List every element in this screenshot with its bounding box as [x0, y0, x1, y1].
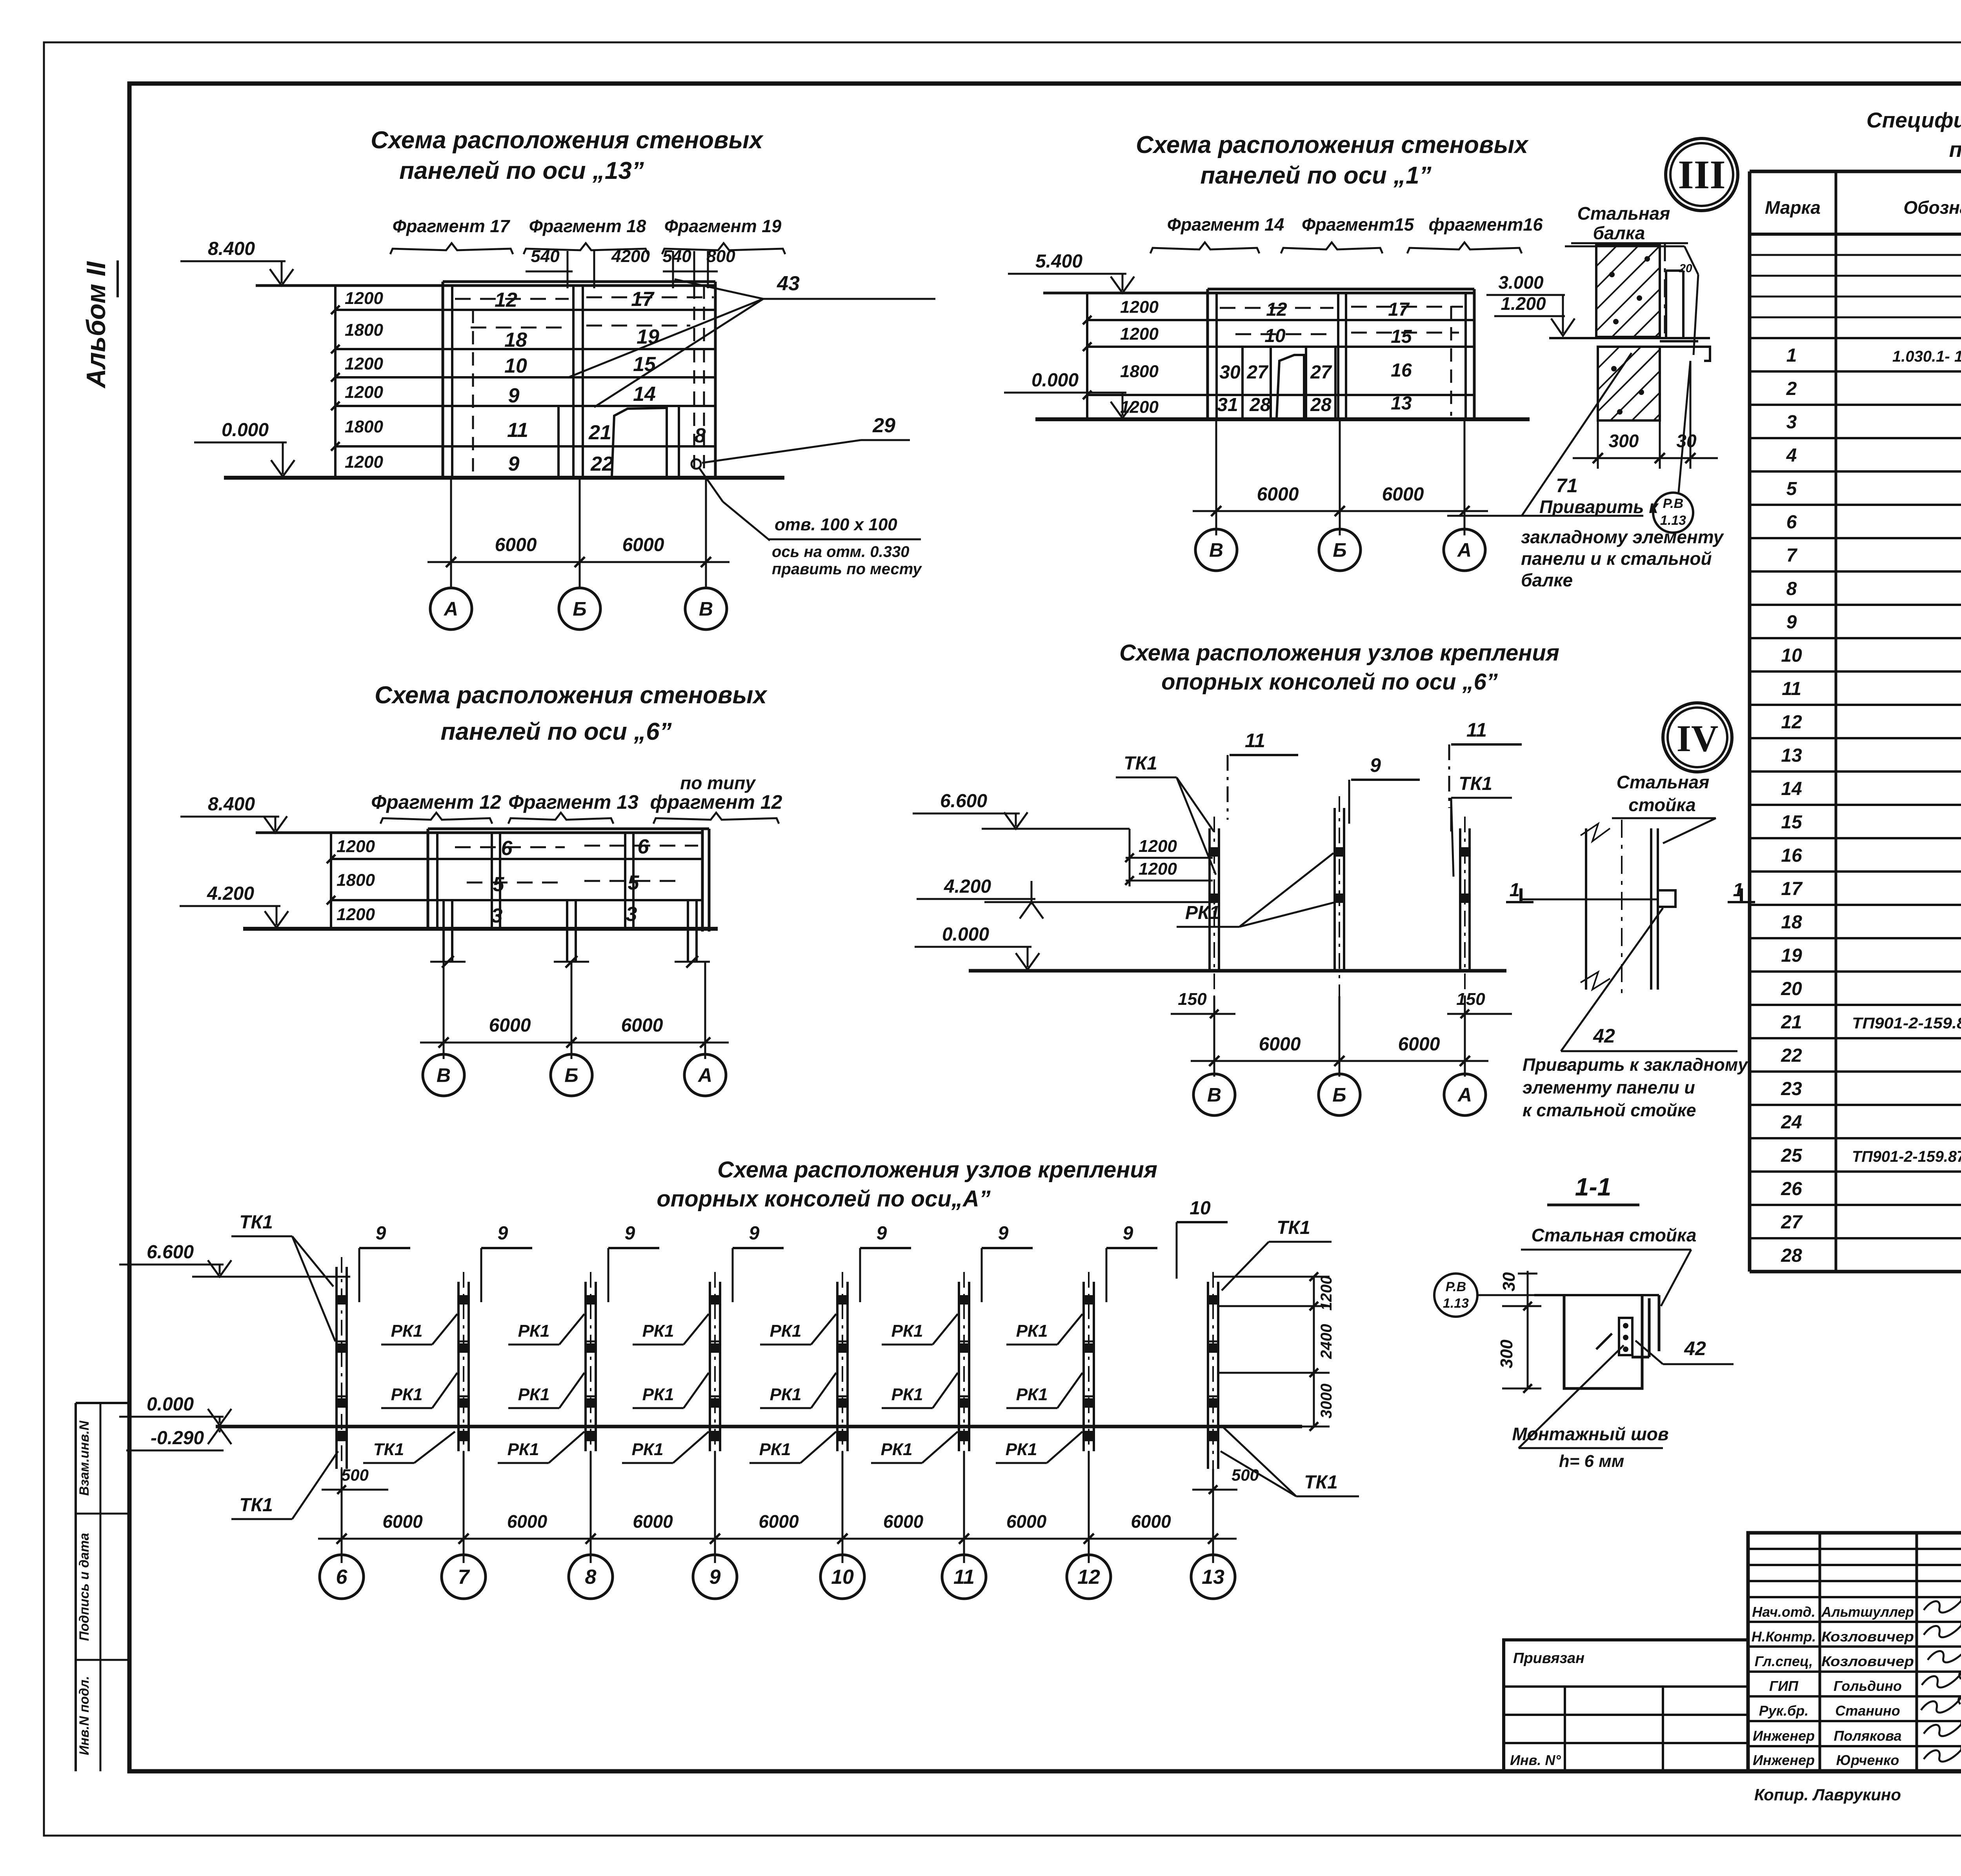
svg-text:6000: 6000 [759, 1511, 799, 1532]
svg-text:540: 540 [662, 247, 691, 266]
table row 13 ПС 63.5.12.3,0-3.Л-2,36 [1781, 745, 1961, 766]
bearing shelf lines [1549, 338, 1710, 361]
svg-text:42: 42 [1593, 1025, 1615, 1047]
svg-text:8: 8 [695, 424, 706, 447]
svg-text:20: 20 [1679, 262, 1692, 275]
svg-text:15: 15 [633, 353, 656, 376]
svg-text:10: 10 [1781, 645, 1802, 666]
svg-text:13: 13 [1202, 1566, 1224, 1589]
left margin attribute column [76, 1403, 129, 1771]
table row 9 ПС 63.5.12. 3,0-3.Л-2.43 [1786, 612, 1961, 633]
support posts under panel (axis 6) [430, 900, 710, 968]
svg-text:А: А [1457, 539, 1472, 561]
РК1 labels middle row (axis A) [381, 1373, 1082, 1408]
svg-text:1800: 1800 [345, 320, 383, 340]
svg-text:42: 42 [1684, 1337, 1706, 1359]
note приварить к закладному (IV) [1523, 1055, 1748, 1120]
svg-text:Инженер: Инженер [1753, 1752, 1815, 1768]
upper wall section (hatched) [1596, 245, 1660, 337]
label РК1 with leaders (IV) [1177, 853, 1335, 927]
svg-text:Фрагмент 19: Фрагмент 19 [664, 216, 782, 236]
label Стальная стойка (1-1) [1521, 1225, 1696, 1306]
svg-text:10: 10 [1190, 1198, 1211, 1219]
reference circle Р.В 1.13 (III) [1653, 361, 1693, 533]
svg-text:IV: IV [1677, 717, 1719, 759]
svg-text:5: 5 [628, 872, 640, 894]
steel post section (IV) [1522, 820, 1675, 998]
svg-text:А: А [443, 598, 458, 620]
svg-text:6: 6 [638, 835, 649, 858]
svg-text:0.000: 0.000 [222, 420, 269, 440]
svg-text:11: 11 [953, 1566, 975, 1589]
table row 23 2ПС 6.18. 3,0-Л-60 [1781, 1079, 1961, 1099]
svg-text:3: 3 [491, 904, 503, 927]
svg-text:28: 28 [1310, 395, 1332, 415]
svg-text:12: 12 [1266, 299, 1287, 320]
table row 24 2ПС 6.12, 3,0-Л-60 [1781, 1112, 1961, 1133]
svg-text:1200: 1200 [1120, 324, 1159, 344]
svg-text:6000: 6000 [621, 1015, 663, 1036]
stamp row Гл.спец, Козловичер [1755, 1653, 1914, 1669]
axis circle А (1) [1444, 529, 1485, 571]
svg-text:500: 500 [341, 1466, 369, 1484]
svg-text:14: 14 [633, 383, 656, 406]
level line 4.200 (IV) [984, 901, 1216, 903]
table row 18 ПС 63.5.18.3,0-2.Л-2,33 [1781, 912, 1961, 933]
svg-text:В: В [1209, 539, 1223, 561]
svg-text:14: 14 [1781, 779, 1802, 799]
axis circle 10 (axis A) [820, 1555, 864, 1599]
svg-text:Спецификация к схемам расп: Спецификация к схемам расположения стено… [1866, 108, 1961, 132]
svg-text:Обозначение: Обозначение [1903, 197, 1961, 218]
level line 6.600 (IV) [982, 828, 1130, 830]
svg-text:1.030.1- 1 вып. 1-1: 1.030.1- 1 вып. 1-1 [1892, 348, 1961, 365]
svg-text:1200: 1200 [1139, 859, 1177, 879]
elevation 3.000 / 1.200 (III) [1486, 272, 1575, 336]
panel numbers axis 6 [491, 835, 649, 927]
svg-text:5: 5 [1786, 479, 1797, 499]
ground line axis 13 [224, 476, 784, 480]
svg-text:РК1: РК1 [891, 1385, 923, 1404]
table row 15 ПС 63.5.12.3,0-3.Л-1.31 [1781, 812, 1961, 833]
svg-text:27: 27 [1781, 1212, 1803, 1233]
svg-text:6000: 6000 [1131, 1511, 1171, 1532]
svg-text:1800: 1800 [337, 871, 375, 890]
table row 28 2ПС12,12,3,0-Л-105 [1781, 1245, 1961, 1266]
axis circle А (6) [684, 1054, 726, 1096]
fragment labels axis 6 [371, 773, 782, 824]
svg-text:стойка: стойка [1628, 795, 1696, 815]
svg-text:Стальная: Стальная [1577, 203, 1670, 224]
console posts (IV) [1210, 796, 1470, 996]
svg-text:500: 500 [1232, 1466, 1259, 1484]
svg-text:5.400: 5.400 [1035, 251, 1082, 272]
svg-text:Марка: Марка [1765, 197, 1821, 218]
top dimensions 540 4200 540 800 [526, 247, 735, 288]
axis circle Б (IV) [1319, 1074, 1360, 1115]
dim 300 rotated (1-1) [1497, 1302, 1541, 1393]
svg-text:7: 7 [1786, 545, 1798, 566]
dim 500 left (axis A) [322, 1466, 388, 1494]
rotated label Взам.инв.№ [77, 1420, 92, 1496]
svg-text:Р.В: Р.В [1663, 496, 1683, 511]
svg-text:25: 25 [1781, 1145, 1803, 1166]
svg-text:10: 10 [1264, 326, 1286, 346]
diagram title - панели по оси 13 [371, 127, 764, 184]
left margin rotated label Альбом II [81, 260, 118, 389]
svg-text:150: 150 [1456, 990, 1485, 1009]
svg-text:1.13: 1.13 [1443, 1296, 1469, 1311]
rotated label Инв.№ подл. [77, 1676, 92, 1755]
svg-text:Р.В: Р.В [1446, 1279, 1466, 1294]
svg-text:1200: 1200 [1139, 837, 1177, 856]
svg-text:РК1: РК1 [642, 1385, 674, 1404]
steel angle on beam [1666, 262, 1692, 337]
dimension 300 / 30 (III) [1573, 361, 1718, 469]
svg-text:6000: 6000 [489, 1015, 531, 1036]
svg-text:А: А [1457, 1084, 1472, 1106]
svg-text:по типу: по типу [680, 773, 756, 793]
svg-text:5: 5 [493, 873, 505, 896]
svg-text:В: В [437, 1064, 451, 1086]
svg-text:300: 300 [1497, 1339, 1516, 1368]
svg-text:0.000: 0.000 [1031, 370, 1079, 391]
svg-text:ТК1: ТК1 [373, 1440, 404, 1459]
axis circle 12 (axis A) [1067, 1555, 1111, 1599]
svg-text:РК1: РК1 [770, 1385, 802, 1404]
svg-text:Юрченко: Юрченко [1836, 1752, 1899, 1768]
svg-text:РК1: РК1 [632, 1440, 664, 1459]
svg-text:16: 16 [1781, 845, 1802, 866]
svg-text:19: 19 [1781, 945, 1802, 966]
svg-text:Станино: Станино [1835, 1703, 1900, 1719]
svg-text:4200: 4200 [611, 247, 650, 266]
detail marker circle III [1666, 138, 1738, 211]
svg-text:1.13: 1.13 [1660, 513, 1686, 528]
svg-text:ТК1: ТК1 [1277, 1217, 1310, 1238]
table row 26 2ПС9.3.12.3,0-Л-103 [1781, 1179, 1961, 1199]
svg-text:балке: балке [1521, 570, 1573, 590]
svg-text:ТК1: ТК1 [239, 1495, 273, 1516]
svg-text:9: 9 [1123, 1223, 1133, 1244]
svg-text:800: 800 [706, 247, 735, 266]
panel grid axis 6 [256, 829, 709, 932]
svg-text:Фрагмент 14: Фрагмент 14 [1167, 215, 1284, 235]
svg-text:Альтшуллер: Альтшуллер [1821, 1604, 1914, 1620]
svg-text:11: 11 [1466, 719, 1487, 741]
svg-text:Б: Б [1333, 539, 1346, 561]
stamp row Н.Контр. Козловичер [1752, 1629, 1914, 1645]
svg-text:22: 22 [1781, 1045, 1802, 1066]
svg-text:Фрагмент 12: Фрагмент 12 [371, 791, 501, 813]
table row 1 ПС 60.12. 3,0 - 3.Л-38 [1786, 345, 1961, 366]
table row 5 ПС 60.18. 3,0-2Л-42 [1786, 479, 1961, 499]
svg-text:6: 6 [501, 837, 513, 860]
svg-text:Инженер: Инженер [1753, 1728, 1815, 1744]
specification table grid [1750, 171, 1961, 1272]
table row 21 2ПС18.3.18.3,0-Л-100 [1781, 1012, 1961, 1033]
axis circle А (13) [430, 588, 472, 630]
svg-text:10: 10 [504, 355, 527, 377]
table row 8 2ПС15.18. 3,0-Л-58 [1786, 579, 1961, 599]
svg-text:Фрагмент 13: Фрагмент 13 [508, 791, 639, 813]
svg-text:12: 12 [1077, 1566, 1100, 1589]
svg-text:Полякова: Полякова [1834, 1728, 1901, 1744]
dim 30 rotated (1-1) [1499, 1271, 1537, 1306]
svg-text:10: 10 [831, 1566, 854, 1589]
РК1/ТК1 labels bottom row (axis A) [363, 1432, 1082, 1463]
svg-text:17: 17 [1781, 879, 1803, 899]
axis circle В (1) [1195, 529, 1237, 571]
panel numbers axis 1 [1217, 299, 1412, 415]
signatures [1921, 1598, 1961, 1761]
svg-text:Б: Б [564, 1064, 578, 1086]
svg-text:закладному элементу: закладному элементу [1521, 527, 1725, 547]
table row 6 ПС 60. 12. 3,0-3.Л-34 [1786, 512, 1961, 533]
svg-text:Привязан: Привязан [1513, 1650, 1584, 1667]
axis lines and dimensions 6000 x7 (axis A) [318, 1451, 1237, 1563]
svg-text:17: 17 [631, 288, 655, 311]
axis circle Б (13) [559, 588, 600, 630]
svg-text:Н.Контр.: Н.Контр. [1752, 1629, 1816, 1645]
top break line (III) [1571, 243, 1688, 337]
svg-text:Схема расположения стеновы: Схема расположения стеновых [1136, 131, 1529, 158]
svg-text:30: 30 [1219, 362, 1241, 383]
axis circle В (13) [685, 588, 727, 630]
svg-text:h= 6 мм: h= 6 мм [1559, 1452, 1624, 1471]
svg-text:27: 27 [1246, 362, 1269, 383]
svg-text:6000: 6000 [495, 535, 537, 555]
svg-text:Схема расположения узлов: Схема расположения узлов крепления [1119, 640, 1559, 666]
svg-text:23: 23 [1781, 1079, 1802, 1099]
svg-text:ось на отм. 0.330: ось на отм. 0.330 [772, 543, 909, 560]
svg-text:Фрагмент 18: Фрагмент 18 [529, 216, 646, 236]
svg-text:6000: 6000 [382, 1511, 423, 1532]
svg-text:6000: 6000 [633, 1511, 673, 1532]
axis circle 9 (axis A) [693, 1555, 737, 1599]
svg-text:панелей, узлов крепления: панелей, узлов крепления [1949, 137, 1961, 162]
table row 17 ПС 63.5.12.3,0-3.Л-1.34 [1781, 879, 1961, 899]
svg-text:1200: 1200 [345, 453, 383, 472]
svg-text:опорных консолей по оси: опорных консолей по оси „6” [1161, 669, 1498, 695]
table row 2 ПС 60.18. 3,0-2. Л-31 [1786, 378, 1961, 399]
svg-text:1.200: 1.200 [1501, 293, 1546, 314]
svg-text:4.200: 4.200 [207, 883, 254, 904]
label ТК1 left with leaders [1116, 753, 1216, 875]
leader 43 [568, 272, 935, 407]
svg-text:11: 11 [1782, 679, 1801, 699]
svg-text:1: 1 [1510, 880, 1520, 901]
cut mark 11 left [1228, 730, 1298, 820]
ground line (IV) [969, 969, 1506, 973]
svg-text:отв. 100 х 100: отв. 100 х 100 [775, 515, 897, 534]
table row 11 ПС 63.5.18.3,0-2.Л-1,31 [1782, 679, 1961, 699]
svg-text:18: 18 [1781, 912, 1802, 933]
svg-text:1: 1 [1786, 345, 1797, 366]
console posts (axis A) [337, 1257, 1218, 1485]
svg-text:30: 30 [1676, 431, 1697, 451]
svg-text:13: 13 [1391, 393, 1412, 414]
svg-text:В: В [699, 598, 713, 620]
svg-text:29: 29 [872, 414, 895, 437]
specification table title [1866, 108, 1961, 162]
row height labels axis 13 [345, 289, 383, 472]
diagram title - узлы крепления по оси 6 [1119, 640, 1559, 695]
table row 16 ПС 63.5.18.3,0-2.Л-1.31 [1781, 845, 1961, 866]
svg-text:1200: 1200 [345, 289, 383, 308]
stamp row Нач.отд. Альтшуллер [1752, 1604, 1914, 1620]
label Стальная балка [1565, 203, 1698, 355]
svg-text:Копир. Лаврукино: Копир. Лаврукино [1754, 1785, 1901, 1804]
svg-text:6000: 6000 [1259, 1034, 1301, 1055]
svg-text:9: 9 [1370, 754, 1381, 776]
svg-text:Стальная: Стальная [1617, 772, 1710, 792]
svg-text:Схема расположения стеновы: Схема расположения стеновых [375, 682, 768, 709]
svg-text:править по месту: править по месту [772, 560, 922, 578]
svg-text:В: В [1207, 1084, 1221, 1106]
table row 27 2ПС12.18.3,0-Л-104 [1781, 1212, 1961, 1233]
svg-text:71: 71 [1556, 475, 1578, 497]
mark ТК1 top left (axis A) [231, 1212, 335, 1341]
svg-text:Козловичер: Козловичер [1821, 1629, 1914, 1645]
svg-text:21: 21 [588, 421, 611, 444]
svg-text:0.000: 0.000 [942, 924, 989, 945]
label ТК1 right with leaders [1451, 773, 1512, 877]
svg-text:21: 21 [1781, 1012, 1802, 1033]
section title 1-1 [1547, 1173, 1639, 1205]
embedded angle with weld (1-1) [1619, 1295, 1659, 1357]
svg-text:Инв.N подл.: Инв.N подл. [77, 1676, 92, 1755]
svg-text:12: 12 [1781, 712, 1802, 733]
svg-text:ТП901-2-159.87-КЖ.И 6000-02: ТП901-2-159.87-КЖ.И 6000-02 [1852, 1148, 1961, 1165]
svg-text:1200: 1200 [337, 837, 375, 856]
level line 6.600 (axis A) [192, 1276, 350, 1278]
svg-text:1800: 1800 [1120, 362, 1159, 381]
svg-text:4.200: 4.200 [944, 876, 991, 897]
svg-text:6000: 6000 [622, 535, 664, 555]
svg-text:Гольдино: Гольдино [1834, 1678, 1902, 1694]
svg-text:15: 15 [1391, 326, 1412, 347]
svg-text:17: 17 [1388, 299, 1410, 320]
svg-text:6.600: 6.600 [147, 1242, 194, 1263]
svg-text:РК1: РК1 [881, 1440, 913, 1459]
svg-text:А: А [697, 1064, 712, 1086]
svg-text:Нач.отд.: Нач.отд. [1752, 1604, 1815, 1620]
axis circle А (IV) [1444, 1074, 1486, 1115]
diagram title - панели по оси 1 [1136, 131, 1529, 189]
svg-text:9: 9 [749, 1223, 760, 1244]
svg-text:Фрагмент 17: Фрагмент 17 [393, 216, 511, 236]
svg-text:III: III [1678, 152, 1725, 197]
svg-text:31: 31 [1217, 395, 1238, 415]
svg-text:13: 13 [1781, 745, 1802, 766]
section marks 1-1 (IV) [1506, 880, 1755, 902]
svg-text:20: 20 [1781, 979, 1802, 999]
svg-text:Приварить к закладному: Приварить к закладному [1523, 1055, 1748, 1075]
panel numbers axis 13 [495, 288, 706, 475]
axis circle 13 (axis A) [1191, 1555, 1235, 1599]
svg-text:1200: 1200 [1120, 398, 1159, 417]
svg-text:2400: 2400 [1318, 1324, 1335, 1359]
svg-text:15: 15 [1781, 812, 1803, 833]
svg-text:6.600: 6.600 [940, 791, 987, 812]
svg-text:2: 2 [1786, 378, 1797, 399]
axis circle Б (1) [1319, 529, 1361, 571]
svg-text:8: 8 [585, 1566, 597, 1589]
table row 25 2ПС9.3.18.3,0-Л-102 [1781, 1145, 1961, 1166]
detail marker circle IV [1663, 703, 1732, 772]
svg-text:9: 9 [498, 1223, 508, 1244]
svg-text:6000: 6000 [1257, 484, 1299, 505]
cut mark 11 right [1449, 719, 1522, 808]
svg-text:Б: Б [1332, 1084, 1346, 1106]
ground line axis 1 [1035, 417, 1530, 421]
svg-text:ТП901-2-159.87 -КЖ.И 6000: ТП901-2-159.87 -КЖ.И 6000 [1852, 1015, 1961, 1032]
svg-text:8.400: 8.400 [208, 238, 255, 259]
mark ТК1 bottom right (axis A) [1221, 1428, 1359, 1496]
diagram title - панели по оси 6 [375, 682, 768, 745]
svg-text:24: 24 [1781, 1112, 1802, 1133]
svg-text:300: 300 [1609, 431, 1639, 451]
svg-text:16: 16 [1391, 360, 1412, 381]
svg-text:Схема расположения уз: Схема расположения узлов крепления [717, 1157, 1157, 1183]
mark ТК1 bottom left (axis A) [231, 1451, 338, 1519]
svg-text:Схема расположения стенов: Схема расположения стеновых [371, 127, 764, 154]
svg-text:Фрагмент15: Фрагмент15 [1302, 215, 1414, 235]
svg-text:к стальной стойке: к стальной стойке [1523, 1100, 1696, 1120]
svg-text:26: 26 [1781, 1179, 1802, 1199]
table row 12 ПС 63,5.12.3,0-3.Л-2,34 [1781, 712, 1961, 733]
axis lines and dimension 6000+6000 (axis 6) [420, 962, 729, 1059]
РК1 labels upper row (axis A) [381, 1314, 1082, 1345]
svg-text:6000: 6000 [507, 1511, 548, 1532]
title block grid [1748, 1533, 1961, 1771]
table row 10 ПС 63.5.12. 3,0-3.Л-2,31 [1781, 645, 1961, 666]
svg-text:ГИП: ГИП [1769, 1678, 1799, 1694]
svg-text:9: 9 [625, 1223, 635, 1244]
svg-text:6000: 6000 [1382, 484, 1424, 505]
svg-text:1800: 1800 [345, 417, 383, 437]
rotated label Подпись и дата [77, 1533, 92, 1641]
axis circle 6 (axis A) [320, 1555, 364, 1599]
svg-text:РК1: РК1 [770, 1321, 802, 1341]
axis circle В (6) [423, 1054, 464, 1096]
svg-text:РК1: РК1 [1016, 1321, 1048, 1341]
svg-text:150: 150 [1178, 990, 1207, 1009]
svg-text:0.000: 0.000 [147, 1394, 194, 1415]
weld leader 71 with note (III) [1447, 353, 1659, 517]
table row 19 ПС 63.5.18.3,0-2.Л-1.33 [1781, 945, 1961, 966]
axis lines and dimension 6000+6000 (axis 1) [1193, 419, 1488, 535]
svg-text:9: 9 [998, 1223, 1009, 1244]
svg-text:540: 540 [531, 247, 560, 266]
svg-text:Б: Б [573, 598, 586, 620]
svg-text:РК1: РК1 [391, 1385, 423, 1404]
note text приварить к закладному (III) [1521, 527, 1725, 590]
note Монтажный шов h=6мм (1-1) [1512, 1345, 1668, 1471]
svg-text:6000: 6000 [883, 1511, 924, 1532]
svg-text:Инв. N°: Инв. N° [1510, 1752, 1561, 1768]
svg-text:Подпись и дата: Подпись и дата [77, 1533, 92, 1641]
svg-text:9: 9 [877, 1223, 887, 1244]
svg-text:9: 9 [376, 1223, 386, 1244]
table row 7 ПС 30.18. 3,0-6.Л-56 [1786, 545, 1961, 566]
panel grid axis 13 [256, 282, 715, 477]
axis circle 8 (axis A) [569, 1555, 613, 1599]
svg-text:РК1: РК1 [518, 1321, 550, 1341]
svg-text:панели и к стальной: панели и к стальной [1521, 548, 1712, 569]
leader 42 (1-1) [1635, 1337, 1734, 1364]
